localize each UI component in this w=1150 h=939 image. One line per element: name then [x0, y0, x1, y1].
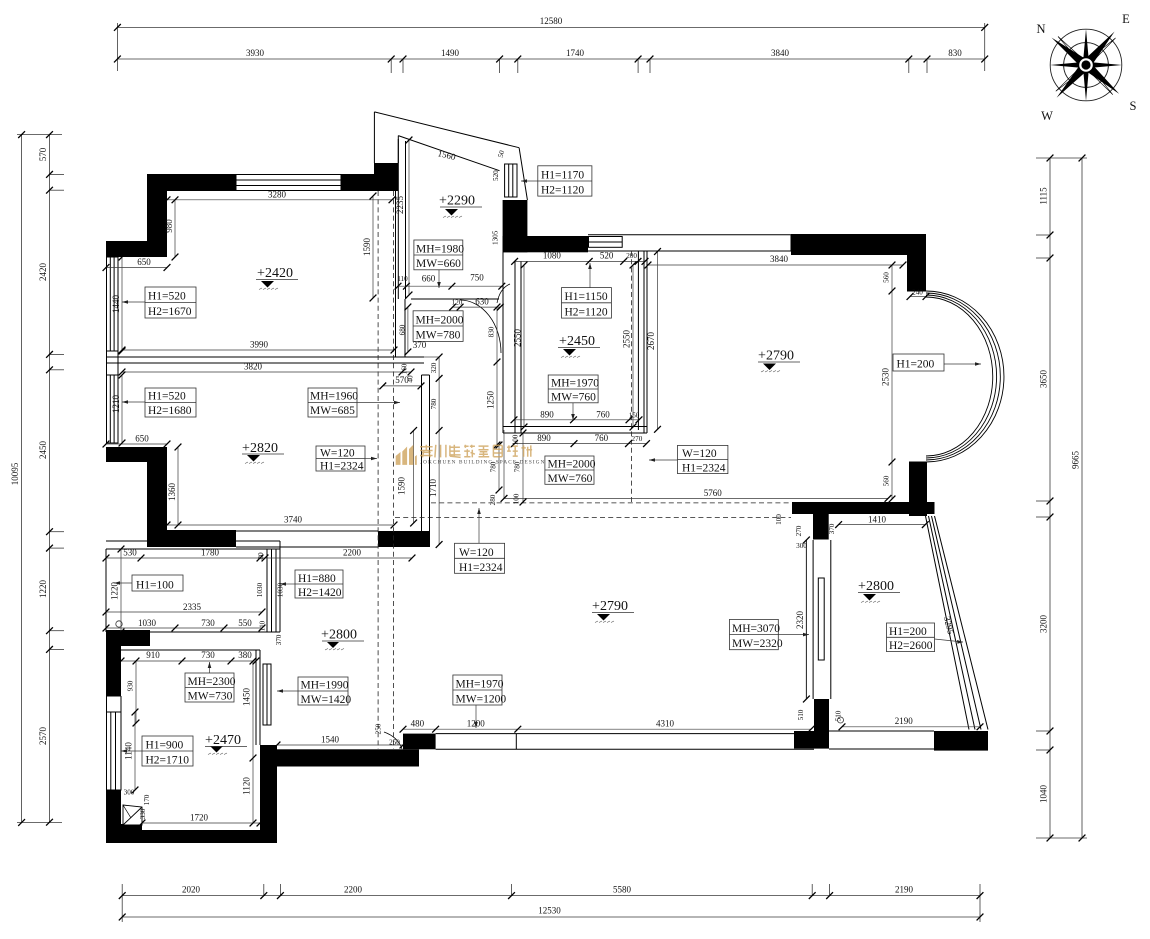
svg-text:2235: 2235	[395, 196, 405, 215]
wall storage room outline	[106, 540, 280, 542]
wall living bottom pier	[403, 734, 436, 750]
svg-text:650: 650	[135, 434, 149, 444]
svg-text:MH=3070: MH=3070	[732, 623, 780, 635]
svg-text:+2470: +2470	[205, 733, 241, 748]
svg-text:1560: 1560	[437, 148, 457, 162]
svg-text:MH=1970: MH=1970	[456, 679, 504, 691]
svg-text:1740: 1740	[566, 48, 585, 58]
svg-text:H1=900: H1=900	[146, 740, 184, 752]
wall bath right vertical	[260, 745, 277, 843]
svg-text:550: 550	[238, 618, 252, 628]
svg-text:520: 520	[492, 170, 500, 181]
door arc hall	[460, 300, 501, 353]
svg-text:250: 250	[389, 739, 400, 747]
svg-text:3840: 3840	[771, 48, 790, 58]
svg-text:560: 560	[883, 475, 891, 486]
svg-text:9665: 9665	[1071, 451, 1081, 470]
svg-text:H1=2324: H1=2324	[320, 461, 364, 473]
wall dining bottom	[792, 502, 935, 514]
svg-text:730: 730	[201, 650, 215, 660]
svg-text:H2=2600: H2=2600	[889, 640, 933, 652]
window top bedroom1	[236, 175, 341, 191]
svg-text:H2=1710: H2=1710	[146, 755, 190, 767]
svg-text:MW=1420: MW=1420	[301, 694, 352, 706]
wall hall top-left piece	[106, 630, 150, 646]
svg-text:1115: 1115	[1039, 187, 1049, 205]
wall bottom-left corner	[106, 824, 142, 843]
svg-text:H1=520: H1=520	[148, 291, 186, 303]
svg-text:480: 480	[411, 718, 425, 728]
wall entry left	[397, 139, 399, 299]
wall bottom of room2 left	[147, 530, 236, 547]
wall top bedroom right	[341, 174, 398, 191]
svg-text:12530: 12530	[538, 906, 561, 916]
svg-text:380: 380	[238, 650, 252, 660]
svg-text:E: E	[1122, 12, 1130, 26]
svg-text:H1=100: H1=100	[136, 580, 174, 592]
svg-text:240: 240	[912, 289, 923, 297]
svg-text:1080: 1080	[543, 251, 562, 261]
svg-text:W=120: W=120	[459, 547, 494, 559]
svg-text:MH=1990: MH=1990	[301, 680, 349, 692]
wall left middle vertical	[147, 447, 167, 543]
svg-text:80: 80	[257, 552, 265, 560]
svg-text:110: 110	[259, 620, 267, 631]
svg-text:S: S	[1130, 99, 1137, 113]
svg-text:12580: 12580	[540, 16, 563, 26]
svg-text:W: W	[1041, 109, 1053, 123]
svg-text:JOKCHUEN BUILDING SPACE DESIGN: JOKCHUEN BUILDING SPACE DESIGN	[420, 460, 546, 466]
svg-text:3820: 3820	[244, 362, 263, 372]
svg-text:50: 50	[497, 149, 507, 158]
svg-text:1710: 1710	[428, 479, 438, 498]
svg-text:910: 910	[146, 650, 160, 660]
svg-text:100: 100	[512, 434, 520, 445]
window left bedroom2	[107, 375, 119, 443]
svg-text:1540: 1540	[321, 734, 340, 744]
svg-text:1250: 1250	[486, 391, 496, 410]
door sliding panel bath	[263, 664, 271, 725]
svg-text:250: 250	[375, 723, 383, 734]
svg-text:+2290: +2290	[439, 194, 475, 209]
svg-text:2450: 2450	[38, 441, 48, 460]
wall bedroom1 right	[395, 191, 397, 357]
svg-text:630: 630	[475, 297, 489, 307]
wall balcony slanted right	[926, 516, 970, 730]
svg-text:4310: 4310	[656, 718, 675, 728]
wall kitchen bottom	[503, 426, 647, 428]
ticks for interior dims	[103, 137, 984, 827]
svg-text:2320: 2320	[795, 611, 805, 630]
window left bath	[107, 712, 122, 790]
svg-text:1030: 1030	[138, 618, 157, 628]
svg-text:370: 370	[275, 634, 283, 645]
svg-text:N: N	[1036, 22, 1045, 36]
svg-text:2190: 2190	[895, 885, 914, 895]
door arc kitchen	[497, 284, 510, 303]
svg-text:2190: 2190	[895, 716, 914, 726]
svg-text:760: 760	[596, 409, 610, 419]
svg-text:890: 890	[540, 409, 554, 419]
balcony slanted top outline	[374, 112, 519, 148]
svg-text:MW=660: MW=660	[416, 258, 461, 270]
svg-text:370: 370	[828, 523, 836, 534]
wall bedroom2 right	[421, 375, 423, 531]
svg-text:3990: 3990	[250, 340, 269, 350]
wall left middle L horiz	[106, 447, 167, 462]
interior dim texts	[110, 190, 957, 823]
svg-text:1720: 1720	[190, 812, 209, 822]
svg-text:650: 650	[137, 257, 151, 267]
svg-text:530: 530	[123, 547, 137, 557]
svg-text:+2420: +2420	[257, 266, 293, 281]
svg-text:1210: 1210	[111, 395, 121, 414]
wall living bottom band	[436, 733, 814, 735]
svg-text:730: 730	[201, 618, 215, 628]
svg-text:H1=200: H1=200	[889, 626, 927, 638]
wall corner block	[374, 163, 398, 175]
door arc corridor living	[384, 732, 402, 749]
svg-text:2530: 2530	[881, 368, 891, 387]
svg-text:MW=760: MW=760	[551, 392, 596, 404]
svg-text:+2450: +2450	[559, 334, 595, 349]
svg-text:MW=730: MW=730	[188, 691, 233, 703]
svg-text:1780: 1780	[201, 547, 220, 557]
svg-text:330: 330	[139, 808, 147, 819]
svg-text:1040: 1040	[1039, 785, 1049, 804]
svg-text:760: 760	[595, 433, 609, 443]
svg-text:+2800: +2800	[858, 579, 894, 594]
svg-text:1220: 1220	[38, 580, 48, 599]
svg-text:H1=1170: H1=1170	[541, 170, 584, 182]
svg-text:3200: 3200	[1039, 615, 1049, 634]
svg-text:2420: 2420	[38, 263, 48, 282]
svg-text:MH=2000: MH=2000	[416, 315, 464, 327]
wall left mid-low vertical	[106, 646, 121, 696]
svg-text:980: 980	[164, 219, 174, 233]
wall kitchen left	[502, 252, 504, 433]
svg-text:270: 270	[795, 525, 803, 536]
window top middle	[589, 237, 623, 248]
svg-text:1120: 1120	[242, 777, 252, 795]
svg-text:H2=1120: H2=1120	[565, 307, 608, 319]
svg-text:H1=880: H1=880	[298, 573, 336, 585]
wall kitchen top	[503, 236, 588, 252]
svg-text:2550: 2550	[513, 329, 523, 348]
svg-text:MW=685: MW=685	[310, 405, 355, 417]
svg-text:1410: 1410	[868, 514, 887, 524]
svg-text:MH=1980: MH=1980	[416, 244, 464, 256]
svg-text:930: 930	[127, 680, 135, 691]
svg-text:280: 280	[489, 494, 497, 505]
svg-text:270: 270	[632, 435, 643, 443]
svg-text:1590: 1590	[362, 238, 372, 257]
wall left step	[106, 241, 147, 257]
door living right sliding	[805, 540, 807, 699]
svg-text:1450: 1450	[242, 688, 252, 707]
svg-text:MH=1960: MH=1960	[310, 391, 358, 403]
small circles	[116, 621, 122, 627]
bay window arcs	[907, 291, 1004, 462]
svg-text:+2800: +2800	[321, 628, 357, 643]
svg-text:2670: 2670	[646, 332, 656, 351]
svg-text:W=120: W=120	[320, 448, 355, 460]
svg-text:560: 560	[883, 272, 891, 283]
svg-text:510: 510	[835, 710, 843, 721]
opening bedroom2 bottom	[236, 530, 378, 532]
svg-text:2200: 2200	[344, 885, 363, 895]
svg-text:1305: 1305	[492, 230, 500, 245]
wall entry right vertical	[503, 200, 528, 252]
svg-text:H1=520: H1=520	[148, 391, 186, 403]
svg-text:170: 170	[143, 794, 151, 805]
svg-text:3840: 3840	[770, 254, 789, 264]
svg-text:3650: 3650	[1039, 370, 1049, 389]
svg-text:320: 320	[430, 362, 438, 373]
svg-text:H2=1420: H2=1420	[298, 587, 342, 599]
wall dining top-right corner	[907, 234, 926, 291]
svg-text:3295: 3295	[942, 615, 956, 635]
wall balcony bottom-left	[794, 731, 829, 749]
svg-text:110: 110	[397, 275, 408, 283]
svg-text:MH=2000: MH=2000	[548, 459, 596, 471]
window entry right	[505, 164, 517, 197]
svg-text:2200: 2200	[343, 547, 362, 557]
svg-text:H2=1680: H2=1680	[148, 405, 192, 417]
svg-text:MH=1970: MH=1970	[551, 378, 599, 390]
svg-text:660: 660	[422, 274, 436, 284]
svg-text:+2790: +2790	[592, 599, 628, 614]
svg-text:300: 300	[796, 542, 807, 550]
svg-text:890: 890	[537, 433, 551, 443]
shaft trapezoid symbol	[123, 805, 142, 825]
svg-text:5760: 5760	[704, 488, 723, 498]
svg-text:750: 750	[470, 273, 484, 283]
wall bay bottom pier	[909, 462, 927, 516]
wall bath top	[121, 649, 260, 651]
svg-text:MW=1200: MW=1200	[456, 694, 507, 706]
wall hall bottom	[261, 749, 419, 766]
wall top band middle	[588, 234, 791, 236]
svg-text:830: 830	[488, 326, 496, 337]
svg-text:H2=1670: H2=1670	[148, 306, 192, 318]
svg-text:570: 570	[38, 147, 48, 161]
svg-text:MW=780: MW=780	[416, 330, 461, 342]
wall divider bedroom1/bedroom2	[106, 356, 424, 358]
wall bath divider	[255, 650, 257, 745]
wall balcony left lower pier	[814, 699, 829, 731]
svg-text:5580: 5580	[613, 885, 632, 895]
svg-text:2020: 2020	[182, 885, 201, 895]
wall left vertical top	[147, 174, 167, 257]
svg-text:100: 100	[775, 514, 783, 525]
svg-text:300: 300	[124, 789, 135, 797]
svg-text:1440: 1440	[111, 295, 121, 314]
wall kitchen/dining	[637, 251, 639, 430]
svg-text:3740: 3740	[284, 515, 303, 525]
wall dining top	[791, 234, 926, 255]
wall bottom of room2 right bar	[378, 531, 430, 547]
svg-text:MW=2320: MW=2320	[732, 638, 783, 650]
svg-text:2550: 2550	[622, 330, 632, 349]
svg-text:H1=200: H1=200	[897, 359, 935, 371]
wall hall top line	[411, 298, 499, 300]
svg-text:200: 200	[626, 252, 637, 260]
svg-text:120: 120	[452, 299, 463, 307]
wall bath bottom	[142, 830, 260, 843]
wall left lower vertical	[106, 790, 121, 841]
wall balcony bottom band	[829, 730, 934, 732]
svg-text:100: 100	[512, 493, 520, 504]
svg-text:780: 780	[430, 398, 438, 409]
svg-text:H2=1120: H2=1120	[541, 185, 584, 197]
svg-text:150: 150	[629, 411, 640, 419]
window left bedroom1	[107, 257, 119, 351]
svg-text:1030: 1030	[256, 582, 264, 597]
svg-text:1590: 1590	[397, 477, 407, 496]
svg-text:10095: 10095	[10, 462, 20, 485]
wall balcony bottom-right	[934, 731, 988, 751]
svg-text:2335: 2335	[183, 602, 202, 612]
svg-text:H1=2324: H1=2324	[682, 463, 726, 475]
svg-text:40: 40	[407, 375, 415, 383]
svg-text:1360: 1360	[167, 483, 177, 502]
svg-text:520: 520	[600, 251, 614, 261]
svg-text:3280: 3280	[268, 190, 287, 200]
svg-text:2570: 2570	[38, 727, 48, 746]
svg-text:W=120: W=120	[682, 448, 717, 460]
svg-text:830: 830	[948, 48, 962, 58]
wardrobe storage right	[266, 549, 268, 632]
svg-text:MW=760: MW=760	[548, 473, 593, 485]
svg-text:1490: 1490	[441, 48, 460, 58]
svg-text:160: 160	[401, 363, 409, 374]
svg-text:1220: 1220	[110, 582, 120, 601]
svg-text:H1=1150: H1=1150	[565, 291, 608, 303]
svg-text:MH=2300: MH=2300	[188, 676, 236, 688]
svg-text:3930: 3930	[246, 48, 265, 58]
svg-text:+2790: +2790	[758, 349, 794, 364]
svg-text:680: 680	[399, 324, 407, 335]
wall top bedroom left	[147, 174, 236, 191]
wall balcony top-left pier	[813, 514, 829, 540]
svg-text:H1=2324: H1=2324	[459, 562, 503, 574]
svg-text:510: 510	[797, 709, 805, 720]
